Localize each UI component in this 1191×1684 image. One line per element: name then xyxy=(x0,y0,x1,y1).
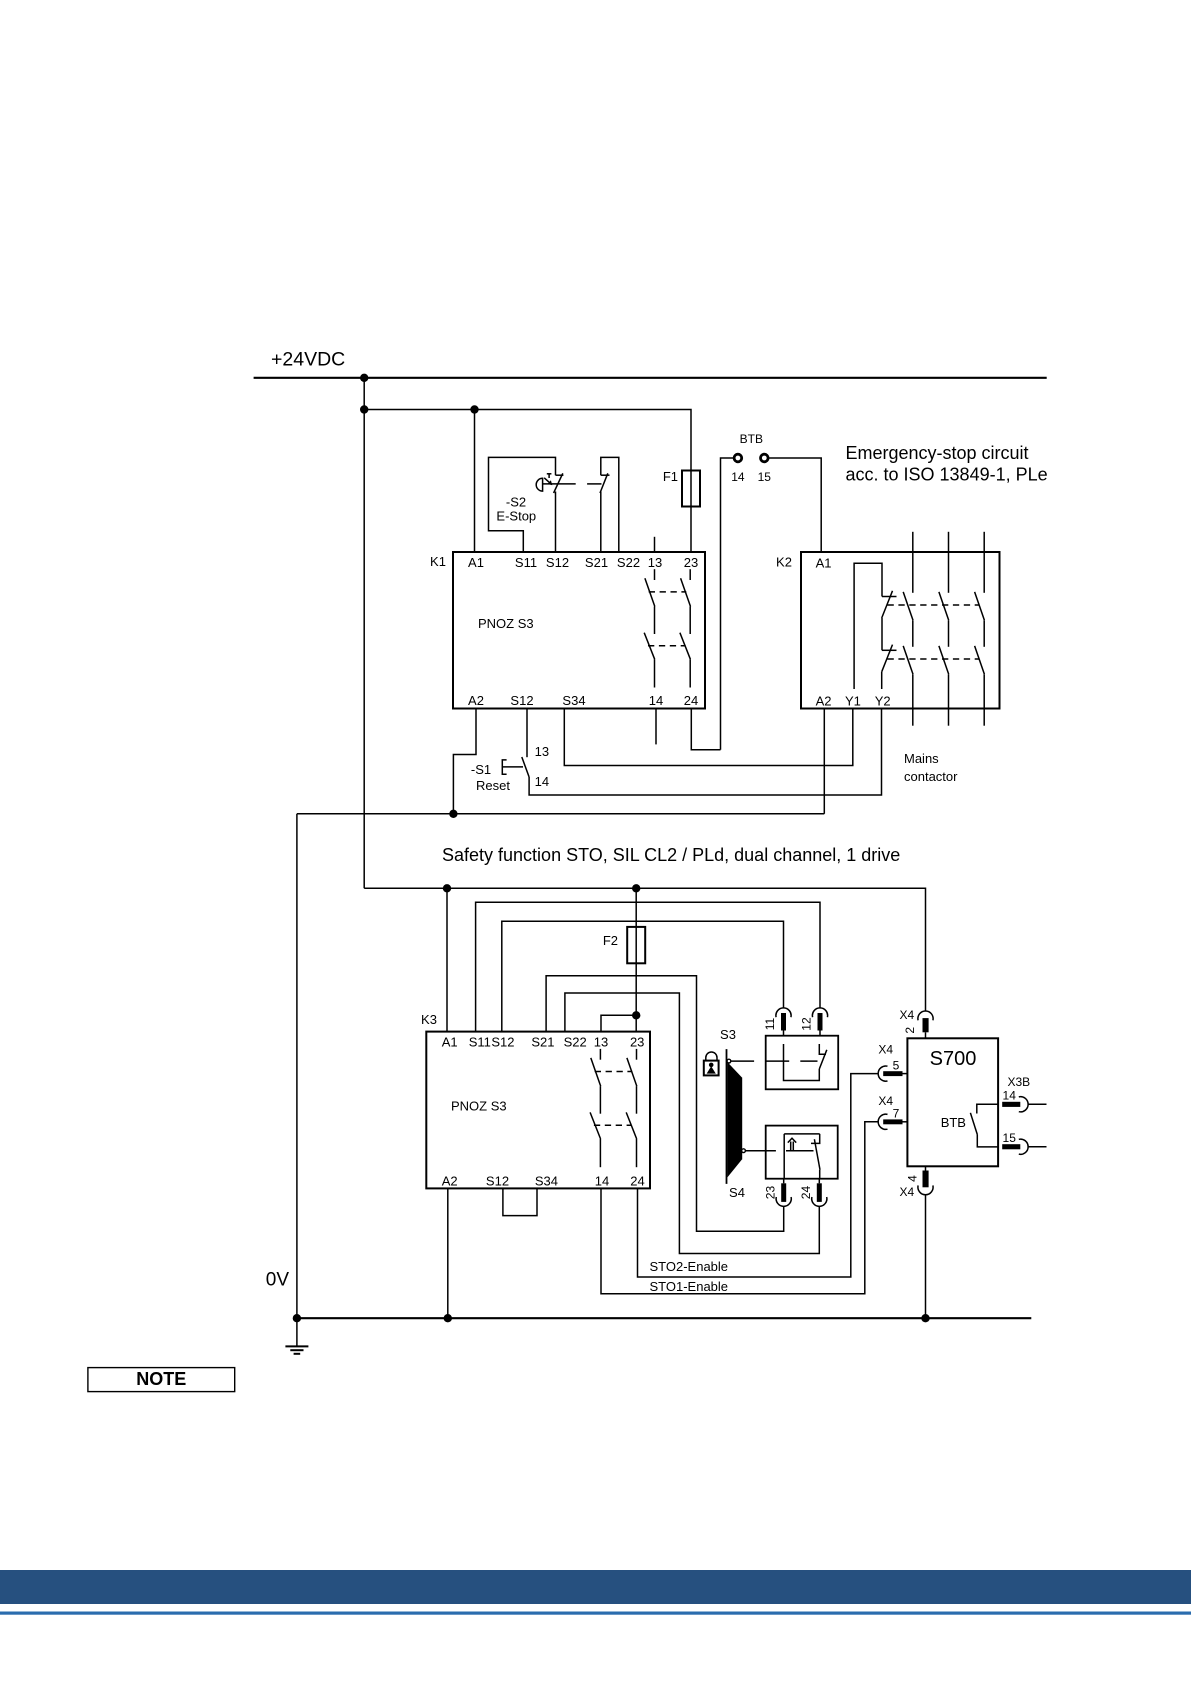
svg-text:X4: X4 xyxy=(900,1185,915,1199)
svg-text:Emergency-stop circuit: Emergency-stop circuit xyxy=(846,443,1029,463)
door hinge S4 xyxy=(742,1149,746,1153)
wire contact1 to K1 S12 xyxy=(555,492,557,553)
svg-text:13: 13 xyxy=(648,555,662,570)
wire X4-4 to 0V xyxy=(925,1195,927,1318)
junction A1 branch xyxy=(470,405,478,413)
fuse F1 xyxy=(682,471,700,507)
socket arc pin 24 xyxy=(812,1197,827,1206)
svg-text:5: 5 xyxy=(893,1059,900,1073)
wire E-stop loop S22 xyxy=(601,457,619,552)
connector X4-5 socket arc xyxy=(878,1066,887,1081)
e-stop contact 1 moving blade xyxy=(554,473,563,493)
svg-text:11: 11 xyxy=(763,1017,777,1030)
svg-text:X4: X4 xyxy=(878,1094,893,1108)
svg-text:4: 4 xyxy=(906,1175,920,1182)
junction on +24VDC rail xyxy=(360,374,368,382)
wire X4-5 bar to box xyxy=(903,1073,908,1075)
svg-text:14: 14 xyxy=(1003,1089,1017,1103)
connector X4-4 socket arc xyxy=(918,1185,933,1194)
S3 contact blade xyxy=(819,1050,827,1069)
wire K2 A2 down xyxy=(823,709,825,814)
footer line xyxy=(0,1612,1191,1615)
wire +24VDC rail xyxy=(254,377,1047,379)
svg-text:STO1-Enable: STO1-Enable xyxy=(650,1279,729,1294)
K2 aux contact row2 xyxy=(882,649,897,651)
wire branch rail to F1 xyxy=(364,410,691,553)
svg-text:14: 14 xyxy=(595,1174,609,1189)
S4 spring arrow xyxy=(788,1138,796,1142)
svg-text:S700: S700 xyxy=(930,1048,977,1070)
K1 contact linkage row1 xyxy=(649,591,687,593)
padlock icon xyxy=(706,1052,717,1061)
svg-text:PNOZ S3: PNOZ S3 xyxy=(478,616,534,631)
wire feed to F2 xyxy=(635,888,637,1031)
e-stop contact 1 fixed tick xyxy=(556,474,564,476)
svg-text:X4: X4 xyxy=(900,1008,915,1022)
K2 pole 3 xyxy=(983,532,985,593)
wires pins to S3 box xyxy=(783,1030,785,1035)
svg-text:A2: A2 xyxy=(442,1174,458,1189)
svg-text:13: 13 xyxy=(594,1035,608,1050)
svg-text:7: 7 xyxy=(893,1107,900,1121)
svg-text:S11: S11 xyxy=(515,555,537,570)
svg-text:S3: S3 xyxy=(720,1027,736,1042)
svg-text:12: 12 xyxy=(800,1017,814,1031)
svg-text:contactor: contactor xyxy=(904,769,958,784)
svg-text:S12: S12 xyxy=(510,693,533,708)
wire reset to Y2 feedback xyxy=(529,709,881,795)
wire K3 14 STO1 to X4-7 xyxy=(601,1122,878,1294)
reset actuator bracket xyxy=(502,760,506,774)
K1 contact 13-14 xyxy=(654,569,656,580)
contactor K2 box xyxy=(801,552,1000,709)
connector X4-5 pin bar xyxy=(883,1071,902,1076)
wire 0V rail xyxy=(297,1317,1031,1319)
svg-text:Y1: Y1 xyxy=(845,694,861,709)
svg-text:STO2-Enable: STO2-Enable xyxy=(650,1259,729,1274)
svg-text:15: 15 xyxy=(1003,1131,1017,1145)
K2 linkage row2 xyxy=(888,658,980,660)
S4 pin 24 bar xyxy=(817,1183,822,1202)
terminal BTB 14 xyxy=(734,454,742,462)
NOTE box xyxy=(88,1368,235,1392)
reset actuator link xyxy=(502,766,523,768)
connector X3B-15 socket arc xyxy=(1019,1139,1028,1154)
wire BTB 15 to K2 A1 xyxy=(768,458,821,552)
K3 linkage row2 xyxy=(594,1124,632,1126)
svg-text:S21: S21 xyxy=(531,1035,554,1050)
door hinge S3 xyxy=(727,1059,731,1063)
wires S4 box to pins xyxy=(783,1179,785,1184)
svg-text:BTB: BTB xyxy=(941,1115,966,1130)
BTB contact top xyxy=(977,1104,998,1113)
svg-text:X4: X4 xyxy=(878,1043,893,1057)
svg-text:X3B: X3B xyxy=(1007,1075,1030,1089)
connector X4-7 socket arc xyxy=(878,1114,887,1129)
wire E-stop loop S11 xyxy=(489,457,556,552)
mechanical linkage e-stop contacts xyxy=(543,483,576,485)
svg-text:13: 13 xyxy=(535,744,549,759)
socket arc pin 23 xyxy=(776,1197,791,1206)
K3 linkage row1 xyxy=(595,1071,633,1073)
K1 contact 23-24 xyxy=(689,569,691,580)
svg-text:NOTE: NOTE xyxy=(136,1369,186,1389)
svg-text:S4: S4 xyxy=(729,1185,745,1200)
connector X4-7 pin bar xyxy=(883,1119,902,1124)
svg-text:E-Stop: E-Stop xyxy=(496,509,536,524)
footer bar xyxy=(0,1570,1191,1604)
wire K3 S11 to S3 pin 12 xyxy=(476,902,820,1031)
connector X4-2 socket arc xyxy=(918,1011,933,1020)
svg-text:Reset: Reset xyxy=(476,778,510,793)
svg-text:A1: A1 xyxy=(468,555,484,570)
S4 contact blade xyxy=(814,1139,820,1169)
svg-text:acc. to ISO 13849-1, PLe: acc. to ISO 13849-1, PLe xyxy=(846,464,1048,484)
connector X4-4 pin bar xyxy=(923,1171,929,1188)
relay K3 box xyxy=(426,1032,650,1189)
wire left 0V vertical xyxy=(296,814,298,1318)
K3 contact 13-14 xyxy=(599,1049,601,1060)
junction K3 A2 on 0V xyxy=(444,1314,452,1322)
wire K1 24 to BTB 14 xyxy=(691,709,720,750)
switch S3 box xyxy=(766,1036,839,1090)
S4 fixed terminal xyxy=(811,1134,820,1144)
wire STO section feed rail xyxy=(364,888,925,1011)
svg-text:PNOZ S3: PNOZ S3 xyxy=(451,1099,507,1114)
svg-text:Safety function STO, SIL CL2 /: Safety function STO, SIL CL2 / PLd, dual… xyxy=(442,845,900,865)
svg-text:14: 14 xyxy=(649,693,663,708)
e-stop contact 2 fixed tick xyxy=(601,474,610,476)
svg-text:S34: S34 xyxy=(535,1174,558,1189)
svg-text:-S1: -S1 xyxy=(471,762,491,777)
svg-text:K1: K1 xyxy=(430,554,446,569)
link S3 xyxy=(731,1060,754,1062)
reset S1 moving blade xyxy=(522,757,529,777)
wire K1 13 stub above box xyxy=(654,537,656,552)
svg-text:+24VDC: +24VDC xyxy=(271,349,345,371)
switch S4 box xyxy=(766,1126,838,1179)
S4 linkage inside xyxy=(786,1150,814,1152)
svg-text:24: 24 xyxy=(799,1186,813,1200)
e-stop mushroom head xyxy=(536,478,542,491)
svg-text:24: 24 xyxy=(630,1174,644,1189)
S3 linkage inside xyxy=(766,1060,790,1062)
wire X3B-15 out xyxy=(1028,1146,1047,1148)
svg-text:24: 24 xyxy=(684,693,698,708)
svg-text:S22: S22 xyxy=(564,1035,587,1050)
svg-text:14: 14 xyxy=(535,774,549,789)
K2 pole 2 xyxy=(948,532,950,593)
K2 pole 1 xyxy=(912,532,914,593)
svg-text:23: 23 xyxy=(630,1035,644,1050)
junction X4-4 on 0V xyxy=(921,1314,929,1322)
terminal BTB 15 xyxy=(761,454,769,462)
connector X3B-15 pin bar xyxy=(1002,1144,1020,1149)
svg-text:-S2: -S2 xyxy=(506,495,526,510)
K2 linkage row1 xyxy=(888,604,980,606)
connector X4-2 pin bar xyxy=(923,1018,929,1032)
svg-text:23: 23 xyxy=(764,1186,778,1200)
svg-text:F2: F2 xyxy=(603,933,618,948)
S3 contact U path xyxy=(784,1044,820,1081)
wire BTB 14 down to K1 24 xyxy=(721,458,735,750)
svg-text:S22: S22 xyxy=(617,555,640,570)
svg-text:F1: F1 xyxy=(663,469,678,484)
wire S700 X4-4 xyxy=(925,1166,927,1170)
svg-text:K2: K2 xyxy=(776,555,792,570)
wire K1 A2 down to 0V bus xyxy=(453,709,476,814)
junction A2/K2-A2 bus xyxy=(449,810,457,818)
connector X3B-14 socket arc xyxy=(1019,1097,1028,1112)
svg-text:A1: A1 xyxy=(816,556,832,571)
K1 contact linkage row2 xyxy=(648,645,686,647)
S4 left vertical xyxy=(783,1134,785,1179)
door switch actuator line xyxy=(726,1049,728,1184)
junction F2 branch xyxy=(632,884,640,892)
e-stop contact 2 moving blade xyxy=(600,473,608,493)
wire X3B-14 out xyxy=(1028,1103,1047,1105)
wire K3 A1 vertical xyxy=(446,888,448,1031)
relay K1 box xyxy=(453,552,705,709)
wire X4-2 bar to box xyxy=(925,1032,927,1038)
svg-text:S12: S12 xyxy=(486,1174,509,1189)
K2 aux contact row1 xyxy=(882,596,897,598)
fuse F2 xyxy=(627,927,645,963)
S3 pin 11 socket arc xyxy=(776,1008,791,1017)
svg-text:Y2: Y2 xyxy=(875,694,891,709)
svg-text:A2: A2 xyxy=(468,693,484,708)
svg-text:23: 23 xyxy=(684,555,698,570)
svg-text:BTB: BTB xyxy=(740,432,763,446)
wire left vertical from +24VDC rail down to STO section xyxy=(363,378,365,889)
wire X4-7 bar to box xyxy=(903,1121,908,1123)
svg-text:0V: 0V xyxy=(266,1270,290,1291)
S4 lower right vertical xyxy=(819,1170,821,1179)
wire A2 bus horizontal xyxy=(297,813,824,815)
svg-text:S12: S12 xyxy=(546,555,569,570)
svg-text:Mains: Mains xyxy=(904,751,939,766)
S3 pin 12 bar xyxy=(818,1013,823,1031)
BTB contact bottom xyxy=(977,1135,998,1147)
wire K1 A1 vertical xyxy=(474,410,476,553)
junction left 0V xyxy=(293,1314,301,1322)
S3 pin 12 socket arc xyxy=(812,1008,827,1017)
wire K2 Y1 coil loop xyxy=(854,563,882,689)
svg-text:15: 15 xyxy=(758,470,772,484)
ground symbol xyxy=(296,1318,298,1346)
svg-text:S12: S12 xyxy=(491,1035,514,1050)
wire K3 S21 to S4 pin 23 xyxy=(546,976,784,1232)
svg-text:S11: S11 xyxy=(469,1035,491,1050)
svg-text:S34: S34 xyxy=(562,693,585,708)
wire K3 S12 to S3 pin 11 xyxy=(502,921,784,1031)
door cam xyxy=(727,1062,742,1178)
svg-text:A1: A1 xyxy=(442,1035,458,1050)
wire K3 13-23 bridge xyxy=(601,1015,636,1031)
junction bridge/F2 xyxy=(632,1011,640,1019)
K3 contact 23-24 xyxy=(636,1049,638,1060)
wire K1 S34 to K2 Y1 xyxy=(564,709,853,766)
wire K3 S12-S34 jumper xyxy=(503,1188,537,1215)
svg-text:14: 14 xyxy=(731,470,745,484)
link S4 xyxy=(746,1150,776,1152)
junction on branch rail xyxy=(360,405,368,413)
S3 contact fixed terminal xyxy=(819,1044,826,1054)
svg-text:S21: S21 xyxy=(585,555,608,570)
wire K3 S22 to S4 pin 24 xyxy=(565,993,819,1254)
S4 inner top xyxy=(784,1133,820,1135)
wire K1 S12 down to reset contact xyxy=(526,709,528,758)
drive S700 box xyxy=(907,1038,998,1166)
S4 pin 23 bar xyxy=(781,1183,786,1202)
e-stop press arrow xyxy=(547,473,552,475)
S3 pin 11 bar xyxy=(781,1013,786,1031)
junction K3 A1 xyxy=(443,884,451,892)
svg-text:A2: A2 xyxy=(816,694,832,709)
connector X3B-14 pin bar xyxy=(1002,1102,1020,1107)
wire K3 A2 to 0V xyxy=(447,1188,449,1318)
svg-text:2: 2 xyxy=(903,1027,917,1034)
svg-text:K3: K3 xyxy=(421,1012,437,1027)
wire contact2 to K1 S21 xyxy=(600,492,602,553)
BTB contact blade xyxy=(970,1113,977,1135)
wire K1 14 stub xyxy=(655,709,657,745)
wire K3 24 STO2 to X4-5 xyxy=(638,1074,879,1277)
